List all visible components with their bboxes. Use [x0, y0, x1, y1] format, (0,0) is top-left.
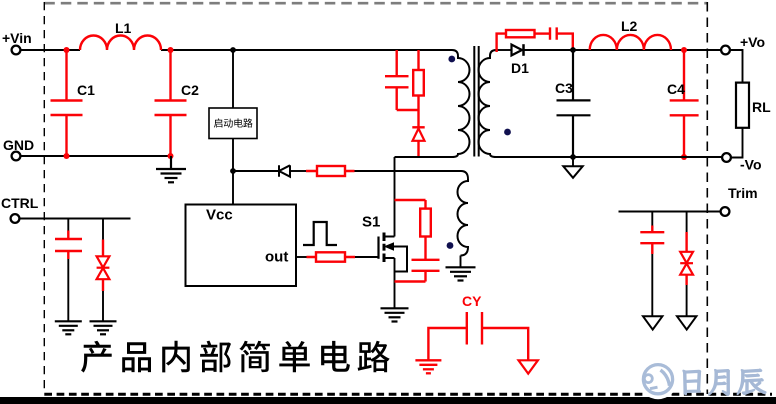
wire RL to -Vo	[731, 128, 743, 158]
ground under CTRL zener	[90, 321, 117, 334]
diode (aux feed, cathode left)	[279, 165, 290, 176]
terminal +Vo	[721, 46, 730, 55]
clamp diode (red, cathode up)	[417, 110, 419, 128]
ground under C2	[156, 156, 186, 182]
svg-text:C4: C4	[667, 81, 685, 97]
inductor L1	[80, 36, 161, 51]
resistor RL	[736, 83, 749, 128]
svg-text:CY: CY	[462, 293, 482, 309]
ground under Trim zener (triangle)	[677, 316, 696, 329]
svg-text:-Vo: -Vo	[740, 157, 762, 173]
svg-text:C2: C2	[181, 82, 199, 98]
capacitor CTRL (red)	[67, 219, 69, 231]
capacitor C4 (red)	[670, 50, 699, 157]
transformer secondary winding	[479, 50, 497, 157]
ground CY right (red triangle)	[519, 360, 538, 373]
wire top rail to startup box	[232, 50, 234, 108]
pulse waveform symbol	[303, 222, 337, 245]
wire drain	[394, 157, 396, 237]
wire D1 to +Vo rail	[524, 49, 722, 51]
wire source to ground	[394, 258, 396, 308]
terminal Trim	[721, 207, 730, 216]
terminal CTRL	[11, 214, 20, 223]
wire resistor to aux winding	[355, 171, 469, 179]
ground CY left (red)	[415, 360, 441, 373]
svg-text:L1: L1	[115, 20, 132, 36]
wire +Vin to L1	[21, 49, 80, 51]
terminal GND	[12, 152, 21, 161]
svg-text:Trim: Trim	[728, 185, 758, 201]
wire primary bottom to drain	[395, 156, 453, 158]
diode D1	[512, 45, 523, 56]
ground under S1	[381, 308, 409, 321]
caption 产品内部简单电路	[81, 341, 390, 373]
resistor (aux feed, red)	[306, 170, 355, 172]
transistor S1 (N-MOSFET)	[379, 233, 408, 272]
wire CTRL rail	[20, 218, 131, 220]
transformer primary winding	[452, 56, 470, 157]
TVS zener pair CTRL (red)	[102, 219, 104, 240]
node C3 top junction	[570, 47, 576, 53]
ground under aux winding	[446, 267, 476, 280]
capacitor Trim (red)	[651, 212, 653, 226]
terminal -Vo	[722, 153, 731, 162]
ground under C3	[572, 157, 574, 166]
svg-text:+Vin: +Vin	[2, 30, 32, 46]
clamp capacitor (red)	[385, 50, 409, 110]
svg-text:RL: RL	[752, 99, 771, 115]
inductor L2 (red)	[590, 35, 671, 50]
wire aux to ground	[460, 256, 462, 268]
gate resistor (red)	[307, 256, 356, 258]
capacitor C3	[557, 50, 591, 157]
wire junction to diode	[233, 170, 279, 172]
svg-text:C3: C3	[555, 80, 573, 96]
wire resistor to gate	[355, 256, 379, 258]
svg-text:GND: GND	[3, 137, 34, 153]
svg-text:C1: C1	[77, 82, 95, 98]
transformer aux winding	[458, 179, 468, 256]
watermark logo	[638, 359, 678, 399]
node C3 bottom junction	[570, 154, 576, 160]
svg-text:S1: S1	[362, 214, 380, 231]
wire +Vo to RL	[730, 50, 743, 83]
clamp bottom wire	[397, 109, 419, 111]
clamp resistor (red)	[417, 50, 419, 70]
svg-text:+Vo: +Vo	[740, 34, 765, 50]
capacitor CY (red)	[428, 312, 528, 360]
secondary snubber RC (red)	[497, 27, 573, 52]
svg-text:CTRL: CTRL	[1, 195, 39, 211]
node Vcc feed junction	[230, 168, 236, 174]
capacitor C2	[155, 50, 187, 156]
TVS zener pair Trim (red)	[686, 212, 688, 233]
terminal +Vin	[12, 46, 21, 55]
startup box 启动电路	[209, 108, 257, 139]
ground under Trim capacitor (triangle)	[643, 316, 662, 329]
node top-rail/startup junction	[230, 47, 236, 53]
svg-text:L2: L2	[621, 18, 638, 34]
svg-text:Vcc: Vcc	[206, 207, 233, 224]
wire Trim rail	[619, 211, 721, 213]
ground under CTRL capacitor	[55, 321, 82, 334]
wire secondary top to D1	[496, 49, 512, 51]
op-amp/controller box Vcc	[186, 205, 297, 287]
wire GND rail	[21, 155, 171, 157]
wire out pin	[296, 256, 307, 258]
RC snubber across S1 (red)	[395, 200, 440, 282]
capacitor C1	[51, 50, 83, 156]
transformer core	[474, 46, 478, 157]
wire secondary bottom rail	[496, 156, 722, 158]
wire L1 to primary top	[161, 50, 458, 56]
secondary polarity dot	[504, 129, 511, 136]
svg-text:out: out	[265, 249, 288, 266]
aux polarity dot	[447, 242, 454, 249]
watermark text 日月辰	[683, 369, 766, 395]
wire startup box to Vcc node	[232, 139, 234, 205]
svg-text:D1: D1	[511, 60, 529, 76]
wire diode to resistor	[290, 170, 306, 172]
primary polarity dot	[448, 56, 455, 63]
